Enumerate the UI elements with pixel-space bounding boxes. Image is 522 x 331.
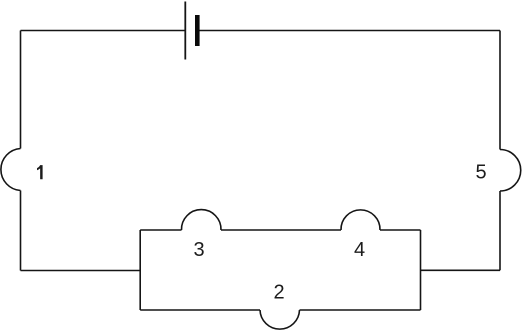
svg-text:5: 5 [476,162,487,184]
ammeter position 4 bump [341,210,380,230]
wire left vertical upper [20,31,22,149]
svg-text:3: 3 [194,239,205,261]
svg-text:2: 2 [274,282,285,304]
wire top-left horizontal (to battery) [21,30,186,32]
wire bottom-left horizontal [21,270,141,272]
ammeter position 3 bump [181,210,221,230]
battery B1 long plate [184,2,186,60]
parallel block bottom edge segment b [300,309,421,311]
parallel block right edge [420,230,422,310]
parallel block left edge [139,230,141,310]
battery B1 short thick plate [195,15,200,46]
wire right vertical upper [499,31,501,150]
wire top-right horizontal (from battery) [200,30,501,32]
svg-text:4: 4 [354,239,365,261]
ammeter position 5 bump [500,150,521,192]
label 1 [37,165,43,179]
wire bottom-right horizontal [421,269,501,271]
ammeter position 2 bump [260,310,300,329]
wire left vertical lower [20,191,22,271]
parallel block bottom edge segment a [140,309,260,311]
ammeter position 1 bump [1,149,21,191]
wire right vertical lower [499,191,501,270]
parallel block top edge segment b [221,229,341,231]
parallel block top edge segment c [380,229,421,231]
parallel block top edge segment a [140,229,181,231]
